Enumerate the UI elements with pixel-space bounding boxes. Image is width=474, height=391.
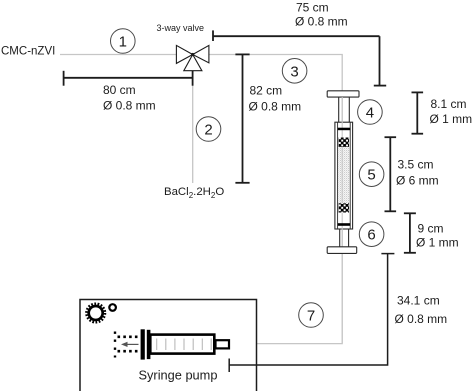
- svg-text:8.1 cm: 8.1 cm: [431, 97, 467, 111]
- svg-text:80 cm: 80 cm: [103, 83, 136, 97]
- svg-text:Syringe pump: Syringe pump: [139, 368, 218, 383]
- svg-text:Ø 1 mm: Ø 1 mm: [416, 236, 459, 250]
- svg-text:Ø 0.8 mm: Ø 0.8 mm: [395, 312, 448, 326]
- svg-text:3: 3: [290, 63, 298, 80]
- svg-text:Ø 0.8 mm: Ø 0.8 mm: [295, 15, 348, 29]
- svg-text:Ø 0.8 mm: Ø 0.8 mm: [103, 99, 156, 113]
- svg-text:3.5 cm: 3.5 cm: [398, 158, 434, 172]
- svg-text:BaCl2.2H2O: BaCl2.2H2O: [164, 186, 224, 200]
- svg-text:82 cm: 82 cm: [250, 84, 283, 98]
- svg-text:2: 2: [204, 122, 212, 139]
- svg-text:6: 6: [367, 227, 375, 244]
- svg-text:1: 1: [119, 34, 127, 51]
- svg-text:34.1 cm: 34.1 cm: [397, 294, 440, 308]
- svg-text:9 cm: 9 cm: [418, 222, 444, 236]
- svg-text:CMC-nZVI: CMC-nZVI: [1, 46, 55, 58]
- svg-text:Ø 6 mm: Ø 6 mm: [396, 174, 439, 188]
- svg-text:Ø 0.8 mm: Ø 0.8 mm: [249, 100, 302, 114]
- svg-text:3-way valve: 3-way valve: [157, 23, 205, 33]
- svg-text:75 cm: 75 cm: [296, 1, 329, 15]
- svg-text:7: 7: [307, 308, 315, 325]
- svg-text:Ø 1 mm: Ø 1 mm: [430, 112, 473, 126]
- svg-text:5: 5: [367, 167, 375, 184]
- svg-text:4: 4: [366, 105, 374, 122]
